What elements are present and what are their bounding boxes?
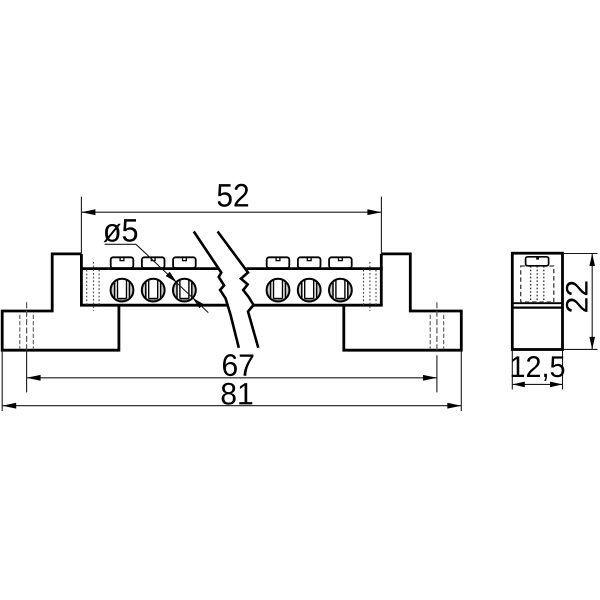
side view hidden screw lines	[530, 266, 532, 302]
dimension 81 arrow right	[447, 403, 461, 409]
dimension 81 arrow left	[2, 403, 16, 409]
dimension 12,5 arrow left	[512, 382, 525, 388]
dimension 12,5 text	[512, 356, 565, 381]
dimension 67 extension line left	[26, 350, 28, 392]
leader ø5 arrow upper	[166, 272, 177, 283]
side view outer body	[512, 253, 562, 349]
busbar top edge right segment	[246, 267, 382, 270]
dimension 22 arrow top	[589, 254, 595, 267]
dimension 81 line	[2, 405, 461, 407]
clamp 2	[142, 257, 165, 268]
dimension 12,5 extension line left	[511, 351, 513, 390]
dimension 81 text	[222, 383, 253, 405]
screw 2	[142, 279, 165, 302]
terminal clamps group	[111, 257, 352, 268]
dimension 12,5 extension line right	[562, 351, 564, 390]
dimension 81 extension line right	[460, 351, 462, 411]
leader ø5 diagonal	[136, 244, 208, 312]
busbar top edge left segment	[80, 267, 218, 270]
screw 4	[267, 279, 290, 302]
clamp 4	[267, 257, 290, 268]
dimension 12,5 arrow right	[550, 382, 563, 388]
dimension 52 arrow right	[367, 209, 381, 215]
busbar right edge	[380, 254, 383, 305]
clamp 5	[298, 257, 321, 268]
screw 5	[298, 279, 321, 302]
break line right	[218, 232, 259, 348]
dimension 22 arrow bottom	[589, 337, 595, 350]
hidden edge dashes at right bar end	[363, 270, 365, 305]
dimension 67 line	[27, 377, 437, 379]
dimension 22 line	[591, 254, 593, 350]
dimension 52 extension line left	[80, 197, 82, 254]
leader ø5 underline	[105, 243, 136, 245]
busbar left edge	[80, 254, 83, 305]
dimension 67 text	[223, 354, 253, 376]
clamp 1	[111, 257, 134, 268]
dimension 52 line	[81, 211, 381, 213]
dimension 81 extension line left	[1, 351, 3, 411]
dimension 22 text	[566, 281, 588, 311]
right mounting bracket	[344, 254, 462, 350]
dimension 67 arrow right	[423, 375, 437, 381]
dimension 52 text	[218, 184, 249, 207]
screw 1	[111, 279, 134, 302]
side view clamp	[526, 257, 549, 266]
side view belt line upper	[512, 302, 562, 304]
label ø5 text	[104, 219, 138, 242]
side view hidden cavity rect	[521, 266, 554, 302]
side view belt line lower	[512, 306, 562, 308]
dimension 22 extension line top	[563, 253, 598, 255]
dimension 22 extension line bottom	[563, 348, 598, 350]
hidden edge dashes at left bar end	[86, 270, 88, 305]
leader ø5 arrow lower	[192, 298, 203, 309]
dimension 52 arrow left	[81, 209, 95, 215]
left mounting bracket	[2, 254, 119, 350]
terminal screws group	[111, 279, 352, 302]
hidden hole dashes in right foot	[429, 315, 431, 349]
dimension 52 extension line right	[380, 197, 382, 254]
screw 3	[173, 279, 196, 302]
hidden hole dashes in left foot	[19, 315, 21, 349]
dimension 67 arrow left	[27, 375, 41, 381]
busbar bottom edge right segment	[253, 304, 382, 307]
screw 6	[329, 279, 352, 302]
busbar bottom edge left segment	[80, 304, 227, 307]
dimension 67 extension line right	[436, 355, 438, 392]
clamp 6	[329, 257, 352, 268]
side view clamp notch	[536, 257, 539, 260]
dimension 12,5 line	[512, 383, 562, 385]
break line left	[194, 232, 239, 348]
clamp 3	[173, 257, 196, 268]
